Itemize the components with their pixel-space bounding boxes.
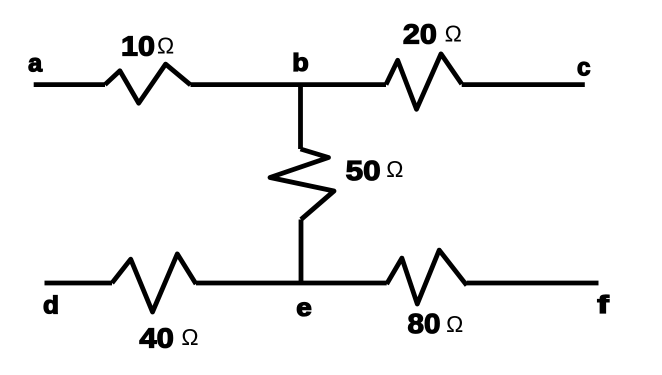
wire R1 to node b to R2 bbox=[191, 82, 387, 87]
resistor R4 40Ω zigzag bbox=[112, 254, 196, 312]
svg-text:Ω: Ω bbox=[386, 156, 403, 182]
svg-text:20: 20 bbox=[403, 18, 437, 49]
svg-text:Ω: Ω bbox=[181, 324, 198, 350]
wire a to R1 bbox=[34, 82, 105, 87]
svg-text:d: d bbox=[43, 292, 59, 320]
svg-text:40: 40 bbox=[139, 323, 174, 354]
svg-text:Ω: Ω bbox=[157, 33, 174, 59]
resistor R3 50Ω zigzag bbox=[270, 149, 334, 220]
svg-text:10: 10 bbox=[121, 30, 155, 61]
wire R5 to f bbox=[467, 281, 599, 286]
svg-text:e: e bbox=[296, 294, 312, 322]
resistor R5 80Ω zigzag bbox=[387, 250, 467, 304]
resistor R1 10Ω zigzag bbox=[105, 64, 191, 103]
wire node b down to R3 bbox=[298, 85, 303, 149]
svg-text:Ω: Ω bbox=[446, 311, 463, 337]
resistor R2 20Ω zigzag bbox=[386, 54, 462, 109]
wire R3 down to node e bbox=[299, 220, 304, 284]
svg-text:Ω: Ω bbox=[445, 21, 462, 47]
svg-text:80: 80 bbox=[408, 308, 441, 339]
wire R4 to node e to R5 bbox=[196, 281, 387, 286]
svg-text:a: a bbox=[28, 50, 43, 78]
wire d to R4 bbox=[45, 281, 113, 286]
svg-text:f: f bbox=[597, 291, 609, 319]
svg-text:50: 50 bbox=[346, 155, 381, 186]
wire R2 to c bbox=[462, 82, 585, 87]
svg-text:c: c bbox=[577, 54, 591, 82]
svg-text:b: b bbox=[292, 49, 309, 77]
